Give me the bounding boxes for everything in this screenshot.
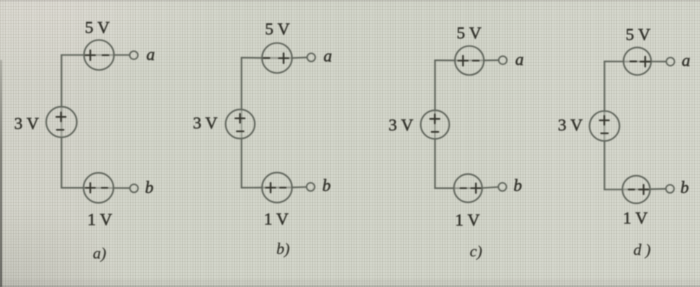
svg-text:5 V: 5 V [265, 20, 290, 39]
circuit a: V3 plus sign (left) [86, 183, 95, 193]
circuit c: wire left vertical [434, 60, 436, 188]
svg-text:d ): d ) [633, 242, 650, 259]
svg-text:a: a [146, 45, 155, 64]
circuit c: terminal b open circle [498, 183, 506, 191]
svg-text:5 V: 5 V [626, 25, 651, 44]
circuit b: V2 minus sign (bottom) [237, 130, 244, 132]
circuit b: wire left vertical [241, 58, 243, 188]
svg-text:a: a [682, 51, 691, 70]
circuit c: voltage source V1 5V circle [455, 46, 484, 75]
circuit b: V2 plus sign (top) [235, 114, 244, 123]
circuit a: V2 plus sign (top) [56, 112, 65, 121]
svg-text:5 V: 5 V [457, 24, 482, 43]
circuit b: terminal a open circle [307, 53, 315, 61]
svg-text:b: b [513, 176, 522, 195]
circuit c: voltage source V2 3V circle [421, 110, 450, 139]
svg-text:3 V: 3 V [389, 115, 414, 134]
circuit d: V3 plus sign (right) [639, 185, 648, 195]
circuit d: V3 minus sign (left) [629, 189, 635, 191]
circuit d: wire left vertical [604, 61, 606, 189]
circuit d: V1 plus sign (right) [640, 57, 650, 67]
circuit c: V3 plus sign (right) [471, 183, 480, 193]
circuit b: V3 plus sign (left) [266, 183, 275, 193]
circuit a: V3 minus sign (right) [102, 187, 108, 189]
circuit c: voltage source V3 1V circle [454, 174, 482, 202]
circuit d: voltage source V1 5V circle [624, 47, 652, 75]
svg-text:a): a) [93, 246, 106, 263]
circuit d: terminal a open circle [666, 58, 674, 66]
circuit d: V1 minus sign (left) [630, 60, 636, 62]
circuit b: voltage source V3 1V circle [262, 173, 292, 203]
circuit a: terminal b open circle [130, 184, 138, 192]
circuit a: voltage source V3 1V circle [84, 173, 114, 203]
circuit d: wire bottom horizontal [605, 188, 666, 191]
circuit c: V2 plus sign (top) [430, 114, 439, 123]
circuit b: voltage source V1 5V circle [262, 43, 292, 73]
svg-text:1 V: 1 V [264, 209, 289, 228]
circuit b: V3 minus sign (right) [280, 187, 286, 189]
circuit c: wire top horizontal [435, 59, 499, 61]
circuit a: wire top horizontal [62, 54, 130, 56]
circuit d: V2 plus sign (top) [600, 116, 609, 125]
circuit a: voltage source V2 3V circle [46, 107, 77, 138]
svg-text:3 V: 3 V [558, 115, 583, 134]
circuit a: V1 plus sign (left) [86, 50, 96, 60]
circuit c: wire bottom horizontal [435, 187, 498, 188]
circuit c: terminal a open circle [499, 56, 507, 64]
svg-text:1 V: 1 V [623, 209, 648, 228]
svg-text:3 V: 3 V [14, 114, 39, 133]
circuit c: V2 minus sign (bottom) [432, 131, 439, 133]
circuit d: voltage source V3 1V circle [622, 176, 650, 204]
circuit a: voltage source V1 5V circle [84, 40, 114, 70]
circuit b: voltage source V2 3V circle [226, 109, 255, 138]
circuit a: wire left vertical [61, 55, 63, 188]
circuit d: voltage source V2 3V circle [590, 111, 620, 141]
circuit c: V3 minus sign (left) [460, 187, 466, 189]
svg-text:b): b) [276, 241, 289, 258]
circuit a: V1 minus sign (right) [103, 54, 109, 56]
circuit a: terminal a open circle [130, 51, 138, 59]
svg-text:b: b [322, 176, 331, 195]
svg-text:a: a [323, 47, 332, 66]
circuit c: V1 plus sign (left) [458, 56, 468, 66]
svg-text:5 V: 5 V [85, 18, 110, 37]
circuit c: V1 minus sign (right) [473, 60, 479, 62]
svg-text:1 V: 1 V [455, 210, 480, 229]
circuit b: terminal b open circle [307, 183, 315, 191]
circuit b: V1 plus sign (right) [279, 53, 289, 63]
circuit b: wire top horizontal [242, 56, 308, 59]
svg-text:1 V: 1 V [87, 210, 112, 229]
svg-text:b: b [145, 178, 154, 197]
svg-text:b: b [680, 178, 689, 197]
circuit b: wire bottom horizontal [242, 186, 307, 189]
circuit d: wire top horizontal [605, 60, 667, 62]
svg-text:a: a [515, 50, 524, 69]
svg-text:3 V: 3 V [193, 113, 218, 132]
circuit a: V2 minus sign (bottom) [57, 129, 64, 131]
circuit a: wire bottom horizontal [62, 187, 130, 189]
circuit d: terminal b open circle [666, 185, 674, 193]
circuit b: V1 minus sign (left) [264, 57, 270, 59]
circuit d: V2 minus sign (bottom) [601, 132, 608, 134]
svg-text:c): c) [470, 244, 482, 261]
